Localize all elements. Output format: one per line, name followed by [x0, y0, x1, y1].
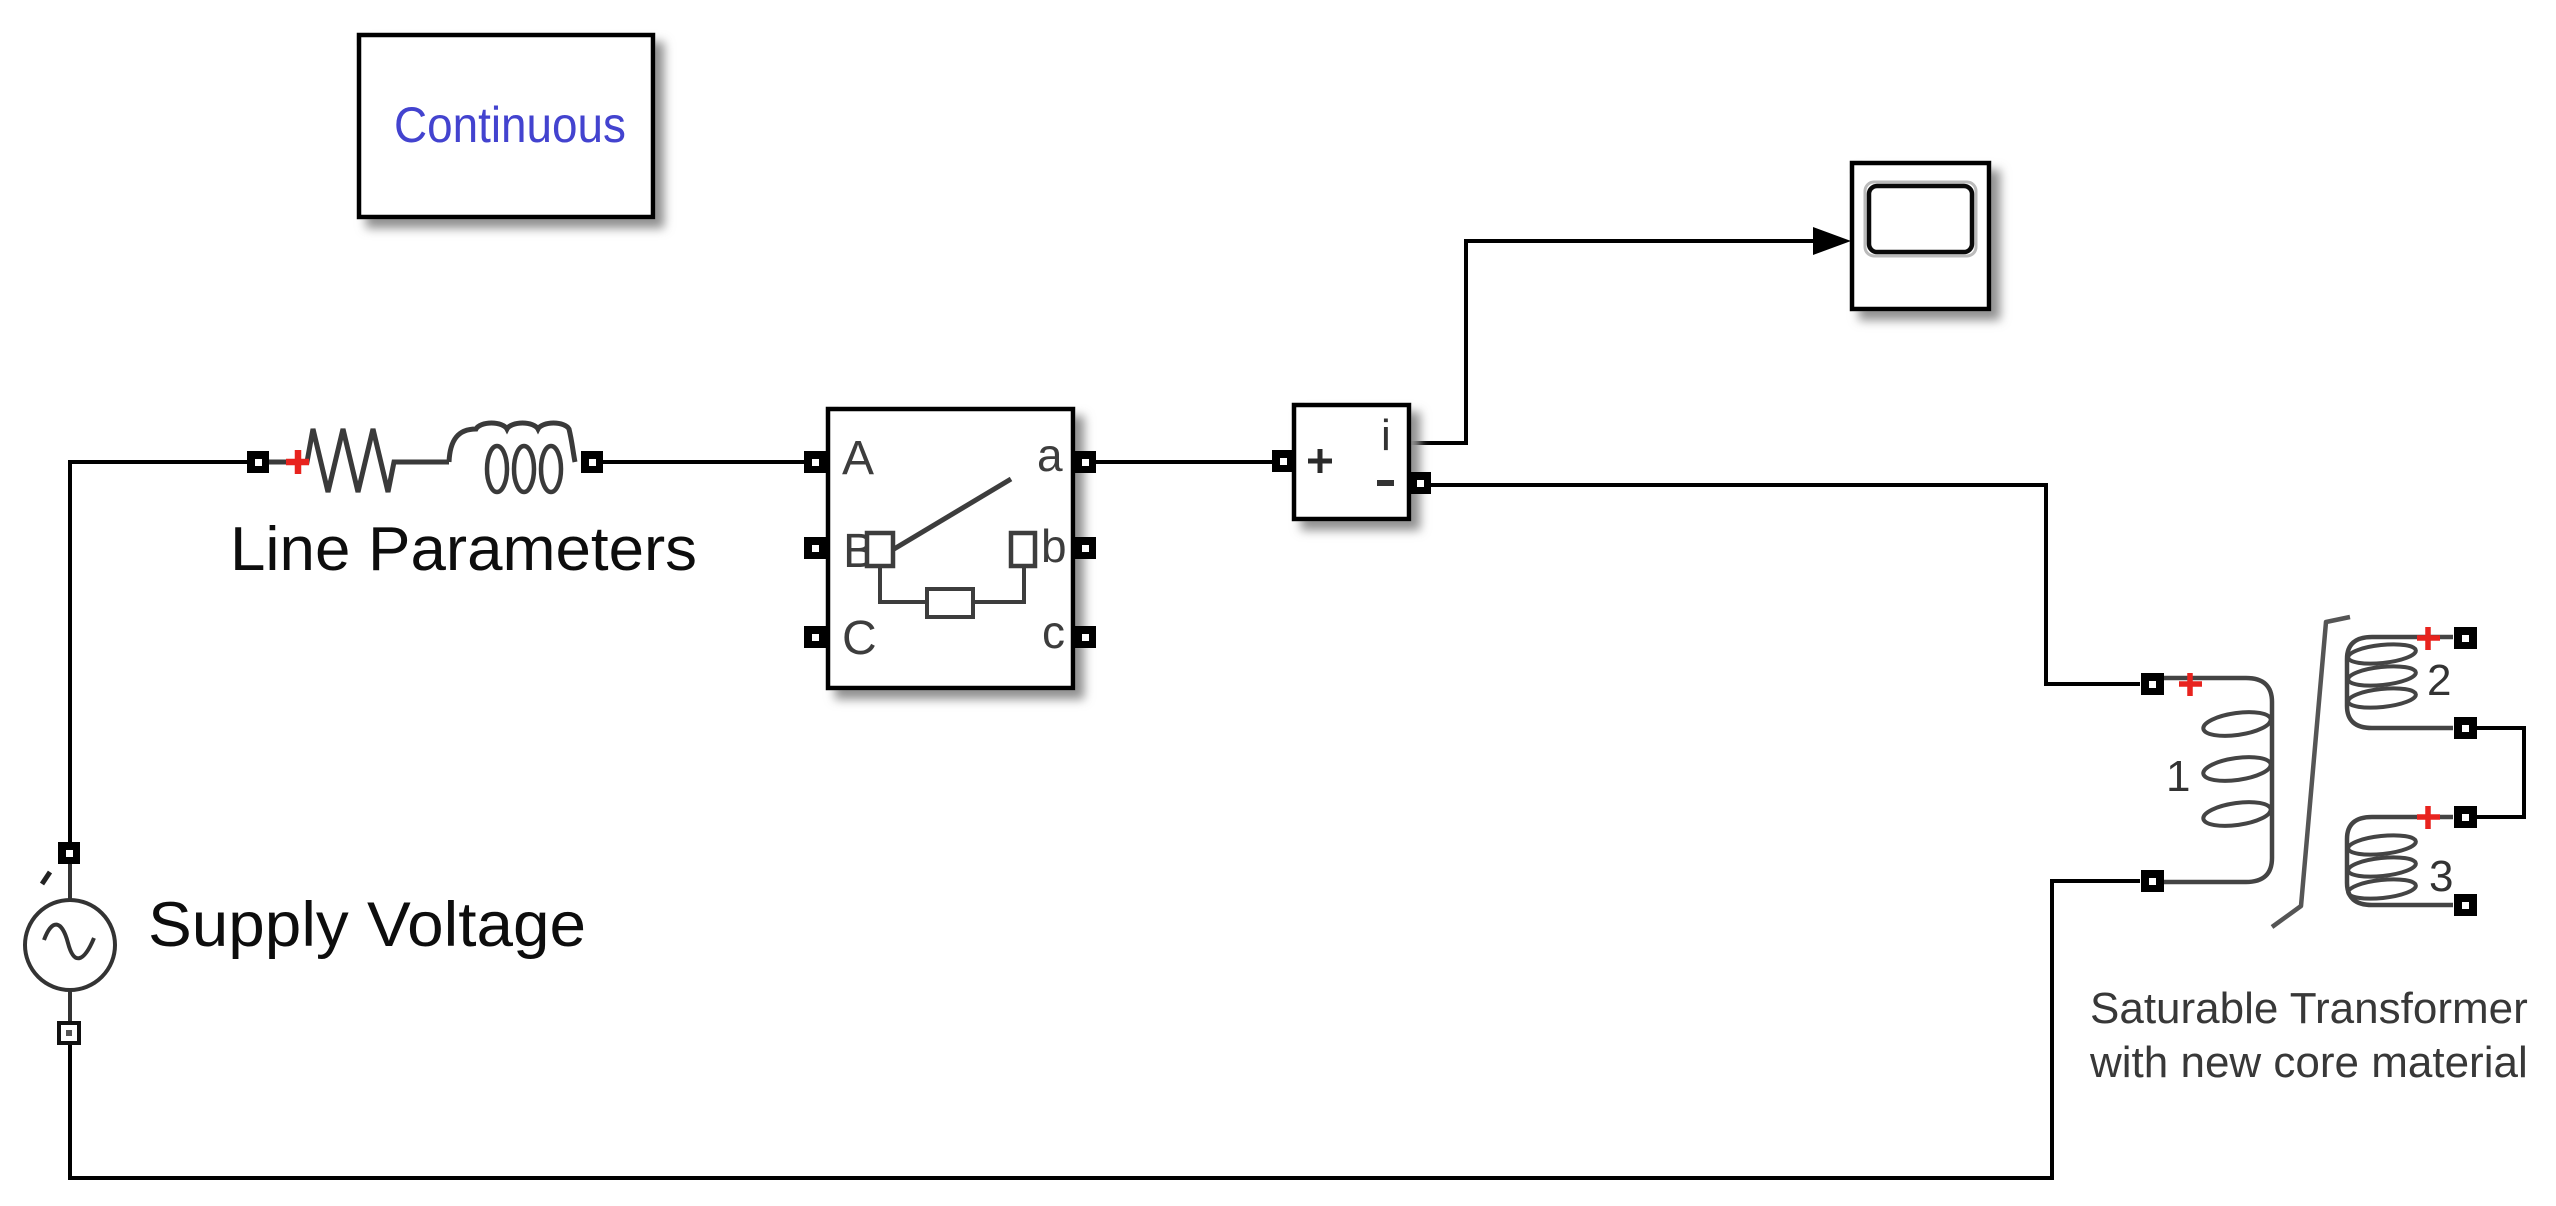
- series RL branch icon: inductor: [449, 423, 575, 462]
- transformer saturable core: [2272, 617, 2350, 927]
- breaker port C: [804, 626, 826, 648]
- transformer winding 2 loops: [2347, 641, 2417, 710]
- scope screen: [1869, 186, 1972, 252]
- transformer winding 3 plus port: [2454, 806, 2477, 828]
- transformer winding 2 minus port: [2454, 717, 2477, 739]
- transformer winding 3 outline: [2347, 817, 2453, 905]
- svg-text:3: 3: [2429, 852, 2453, 901]
- svg-text:A: A: [842, 432, 874, 485]
- current measurement plus sign: [1308, 449, 1332, 473]
- wire: bottom return supply to winding 1 minus: [70, 881, 2140, 1178]
- wire: current minus to transformer winding 1 plus: [1430, 485, 2140, 684]
- transformer winding 1 loops: [2202, 708, 2272, 829]
- transformer winding 1 minus port: [2141, 870, 2164, 892]
- transformer winding 3 loops: [2347, 832, 2417, 901]
- powergui block "Continuous": [359, 35, 653, 217]
- transformer winding 1 red plus: [2179, 673, 2202, 696]
- svg-text:1: 1: [2166, 752, 2190, 801]
- wire: current i output to scope: [1409, 241, 1845, 443]
- scope screen shadow: [1865, 182, 1976, 256]
- wire: winding 2 minus to winding 3 plus: [2477, 728, 2524, 817]
- svg-text:with new core material: with new core material: [2089, 1038, 2528, 1087]
- supply voltage AC source circle: [25, 900, 115, 990]
- transformer winding 2 plus port: [2454, 627, 2477, 649]
- current measurement left port: [1272, 450, 1294, 472]
- breaker switch right contact: [1011, 533, 1035, 566]
- transformer winding 3 minus port: [2454, 894, 2477, 916]
- scope block: [1852, 163, 1989, 309]
- svg-text:Continuous: Continuous: [394, 97, 626, 153]
- svg-text:Line Parameters: Line Parameters: [230, 515, 697, 584]
- transformer winding 1 plus port: [2141, 673, 2164, 695]
- three-phase breaker block: [828, 409, 1073, 688]
- svg-text:i: i: [1381, 411, 1391, 460]
- breaker port A: [804, 451, 826, 473]
- transformer winding 3 red plus: [2417, 806, 2440, 829]
- breaker snubber path: [880, 566, 1024, 602]
- series RL branch icon: resistor: [264, 429, 449, 492]
- svg-text:C: C: [842, 612, 877, 665]
- svg-text:c: c: [1042, 606, 1065, 658]
- breaker port c: [1074, 626, 1096, 648]
- current measurement block: [1294, 405, 1409, 519]
- supply voltage sine wave: [44, 925, 94, 959]
- breaker snubber resistor box: [927, 589, 973, 617]
- transformer winding 1 outline: [2164, 678, 2272, 882]
- supply voltage bottom port: [59, 1023, 79, 1043]
- transformer winding 2 red plus: [2417, 627, 2440, 650]
- supply voltage port number 1 tick: [42, 872, 50, 884]
- svg-text:a: a: [1037, 429, 1063, 481]
- breaker port a: [1074, 451, 1096, 473]
- wire: breaker a to current measurement: [1094, 460, 1274, 464]
- svg-text:2: 2: [2427, 656, 2451, 705]
- svg-text:Saturable Transformer: Saturable Transformer: [2090, 984, 2528, 1033]
- RL red plus: [286, 450, 309, 474]
- breaker switch arm: [894, 479, 1011, 549]
- wire: RL to breaker A: [602, 460, 807, 464]
- RL right port: [581, 451, 603, 473]
- supply voltage top port: [58, 842, 80, 864]
- breaker port B: [804, 537, 826, 559]
- svg-text:b: b: [1041, 520, 1067, 572]
- RL left port: [247, 451, 269, 473]
- supply voltage bottom stub: [68, 990, 72, 1023]
- current measurement minus port: [1409, 472, 1431, 494]
- wire: supply voltage left loop: [70, 462, 247, 843]
- current measurement minus sign: [1377, 480, 1394, 486]
- arrowhead into scope: [1813, 227, 1851, 255]
- breaker port b: [1074, 537, 1096, 559]
- supply voltage top stub: [68, 863, 72, 900]
- transformer winding 2 outline: [2347, 637, 2453, 728]
- svg-text:Supply Voltage: Supply Voltage: [148, 890, 586, 960]
- breaker switch left contact: [867, 533, 893, 566]
